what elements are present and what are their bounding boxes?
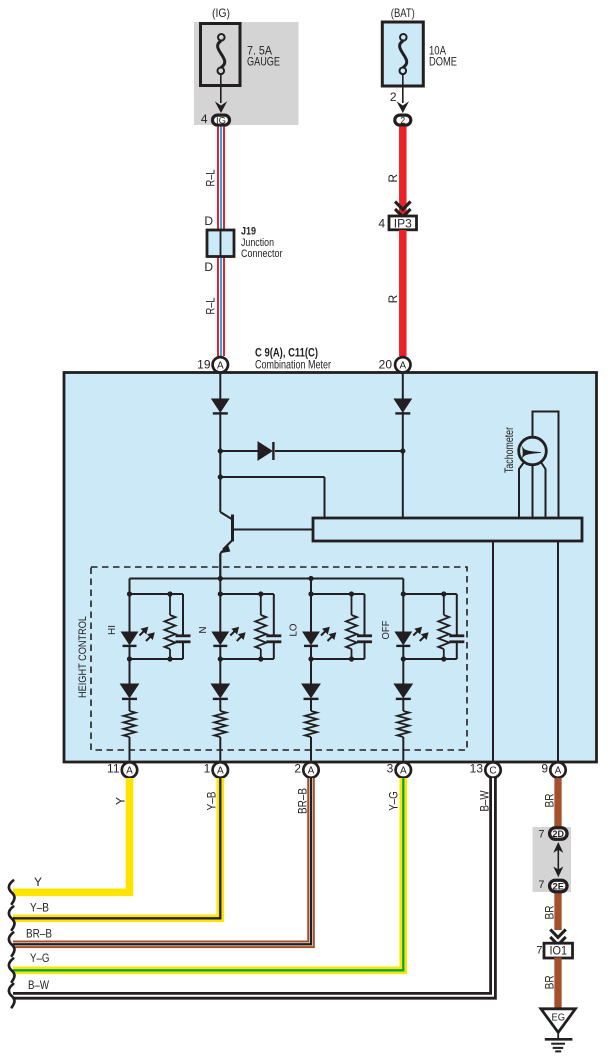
svg-text:R–L: R–L bbox=[204, 169, 218, 186]
svg-text:GAUGE: GAUGE bbox=[247, 55, 280, 69]
svg-text:A: A bbox=[217, 766, 224, 777]
svg-text:13: 13 bbox=[470, 762, 484, 776]
svg-text:DOME: DOME bbox=[429, 55, 457, 69]
svg-text:Combination Meter: Combination Meter bbox=[255, 358, 331, 372]
svg-text:Connector: Connector bbox=[241, 248, 283, 260]
svg-text:Y–G: Y–G bbox=[387, 791, 401, 811]
svg-text:HEIGHT CONTROL: HEIGHT CONTROL bbox=[77, 616, 89, 698]
svg-text:3: 3 bbox=[387, 762, 394, 776]
svg-text:A: A bbox=[555, 766, 562, 777]
svg-text:A: A bbox=[126, 766, 133, 777]
svg-text:BR–B: BR–B bbox=[26, 927, 52, 941]
svg-text:HI: HI bbox=[106, 625, 118, 635]
svg-text:A: A bbox=[217, 360, 224, 371]
svg-text:2D: 2D bbox=[553, 829, 565, 839]
svg-text:9: 9 bbox=[541, 762, 548, 776]
svg-text:BR: BR bbox=[543, 905, 557, 919]
svg-text:BR–B: BR–B bbox=[296, 788, 310, 814]
svg-text:B–W: B–W bbox=[478, 790, 492, 812]
svg-text:BR: BR bbox=[543, 975, 557, 989]
svg-text:2: 2 bbox=[400, 115, 405, 125]
svg-text:Tachometer: Tachometer bbox=[502, 427, 516, 473]
svg-text:IO1: IO1 bbox=[550, 946, 568, 958]
svg-text:D: D bbox=[204, 214, 213, 228]
svg-text:7: 7 bbox=[538, 879, 544, 891]
svg-text:J19: J19 bbox=[241, 226, 256, 238]
svg-text:Y–B: Y–B bbox=[30, 901, 49, 915]
svg-text:LO: LO bbox=[288, 624, 300, 637]
svg-text:Y–G: Y–G bbox=[30, 951, 50, 965]
svg-text:Y: Y bbox=[114, 797, 128, 805]
svg-text:2E: 2E bbox=[553, 881, 565, 891]
svg-text:D: D bbox=[204, 260, 213, 274]
svg-text:7: 7 bbox=[536, 945, 542, 957]
svg-text:4: 4 bbox=[378, 216, 385, 230]
svg-text:Y–B: Y–B bbox=[205, 792, 219, 811]
svg-text:A: A bbox=[399, 360, 406, 371]
svg-text:(IG): (IG) bbox=[212, 6, 230, 20]
svg-text:19: 19 bbox=[197, 357, 211, 371]
svg-text:(BAT): (BAT) bbox=[391, 6, 415, 20]
svg-text:2: 2 bbox=[294, 762, 301, 776]
svg-text:B–W: B–W bbox=[28, 978, 50, 992]
svg-text:IP3: IP3 bbox=[394, 218, 412, 230]
svg-text:R–L: R–L bbox=[204, 297, 218, 314]
svg-text:IG: IG bbox=[216, 115, 226, 125]
svg-text:20: 20 bbox=[379, 357, 393, 371]
svg-text:11: 11 bbox=[107, 762, 120, 776]
svg-text:N: N bbox=[197, 627, 209, 634]
svg-text:1: 1 bbox=[204, 762, 211, 776]
svg-text:2: 2 bbox=[390, 90, 397, 104]
svg-text:A: A bbox=[308, 766, 315, 777]
svg-text:C: C bbox=[489, 766, 496, 777]
svg-text:A: A bbox=[400, 766, 407, 777]
svg-text:R: R bbox=[386, 294, 400, 303]
svg-text:4: 4 bbox=[201, 112, 208, 126]
svg-text:R: R bbox=[386, 174, 400, 183]
svg-text:EG: EG bbox=[552, 1013, 566, 1024]
svg-text:OFF: OFF bbox=[380, 621, 392, 640]
svg-text:7: 7 bbox=[538, 828, 544, 840]
svg-text:Y: Y bbox=[34, 875, 42, 889]
